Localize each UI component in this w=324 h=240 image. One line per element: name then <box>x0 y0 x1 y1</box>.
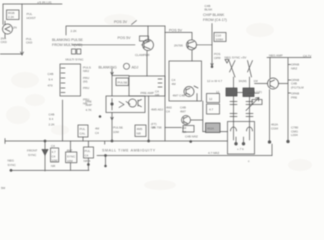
svg-text:NR 4: NR 4 <box>84 159 91 163</box>
svg-text:C4: C4 <box>95 131 99 135</box>
potentiometer VR1 <box>124 63 130 69</box>
svg-text:4.7: 4.7 <box>209 108 214 112</box>
node C4B NRZ label <box>185 135 198 139</box>
node FRONT SYNC label <box>27 149 37 158</box>
resistor R12 <box>66 152 77 163</box>
wire U4 down link <box>203 101 228 132</box>
transistor Q4 <box>129 99 137 107</box>
node U1 left labels <box>48 72 54 88</box>
wire Q3 out <box>197 44 213 46</box>
diode D3 <box>44 141 46 171</box>
wire chip blank vertical <box>211 24 213 67</box>
svg-text:4M5 ADJ: 4M5 ADJ <box>151 108 164 112</box>
potentiometer VR2 arrow <box>246 98 259 111</box>
svg-text:2N: 2N <box>13 26 17 30</box>
svg-text:10M: 10M <box>67 159 73 163</box>
resistor R7 <box>135 125 146 137</box>
IC U3 oneshot <box>106 96 145 113</box>
delay line DL1 input slants <box>229 61 253 78</box>
wire Q2 emitter lower <box>148 96 150 141</box>
svg-text:2.2K: 2.2K <box>49 122 55 126</box>
svg-text:C4: C4 <box>85 154 89 158</box>
transistor Q5 <box>184 87 194 97</box>
resistor R8 <box>183 126 194 133</box>
svg-text:C4: C4 <box>166 109 170 113</box>
node column labels <box>207 79 258 94</box>
node tick <box>132 21 137 25</box>
resistor R9 <box>78 125 88 137</box>
node NEG SYNC out label <box>8 159 17 168</box>
resistor R10 <box>51 148 59 162</box>
svg-text:100M: 100M <box>216 38 224 42</box>
svg-text:C4B: C4B <box>48 72 54 76</box>
svg-text:PULSE: PULSE <box>118 80 128 84</box>
svg-text:12: 12 <box>209 97 213 101</box>
svg-text:C4B NRZ: C4B NRZ <box>185 135 198 139</box>
wire main bottom bus A <box>5 141 228 144</box>
node NEG SYNC label <box>225 56 247 60</box>
svg-text:SYNC: SYNC <box>28 153 37 157</box>
wire U3 down <box>111 113 114 142</box>
svg-text:POS 3V: POS 3V <box>114 20 128 24</box>
node junction arrow <box>21 52 24 55</box>
capacitor C4 <box>243 88 254 97</box>
node 4M2 label <box>166 106 172 114</box>
svg-text:NEG: NEG <box>8 159 15 163</box>
svg-text:+5 PLUS: +5 PLUS <box>37 1 52 5</box>
svg-text:3A(M): 3A(M) <box>239 79 247 83</box>
svg-text:9.4: 9.4 <box>49 78 54 82</box>
svg-text:5M: 5M <box>1 186 6 190</box>
resistor R1 <box>7 10 20 20</box>
svg-text:(M): (M) <box>83 80 88 84</box>
svg-text:L004: L004 <box>291 133 298 137</box>
wire column B <box>249 77 251 140</box>
svg-text:C4.7V: C4.7V <box>303 54 311 58</box>
capacitor marks on columns <box>230 102 253 117</box>
svg-text:+.7 b: +.7 b <box>237 147 244 151</box>
wire adj vertical <box>111 69 114 97</box>
svg-text:(F): (F) <box>258 90 262 94</box>
svg-text:2.2K: 2.2K <box>8 15 14 19</box>
delay line DL1 box <box>228 122 255 155</box>
svg-text:BLANKING: BLANKING <box>99 65 117 69</box>
svg-text:4.7K: 4.7K <box>86 108 92 112</box>
svg-text:C4: C4 <box>51 144 55 148</box>
svg-text:470: 470 <box>48 84 53 88</box>
svg-text:C4B: C4B <box>49 113 55 117</box>
transistor Q2 <box>143 40 154 51</box>
diode D1 <box>111 99 113 111</box>
svg-text:PUL: PUL <box>85 149 91 153</box>
svg-text:(FC/7)LM: (FC/7)LM <box>291 86 304 90</box>
node right pin labels <box>291 63 304 100</box>
node 2.2K label <box>49 113 55 127</box>
svg-text:PRU: PRU <box>83 86 89 90</box>
diode D2 <box>225 60 229 64</box>
IC U2 <box>129 76 165 96</box>
svg-text:BLNK: BLNK <box>205 8 213 12</box>
wire bus B2 <box>97 155 272 157</box>
svg-text:CKD: CKD <box>1 40 8 44</box>
IC U1 multivibrator <box>60 64 81 96</box>
capacitor C2 <box>214 33 226 42</box>
wire Q3 emitter <box>191 50 193 61</box>
node U1 right pin labels <box>83 66 91 106</box>
svg-text:4M: 4M <box>95 127 100 131</box>
resistor R11 <box>84 147 94 158</box>
svg-text:CGM: CGM <box>271 126 279 130</box>
svg-text:12 in W 4.7: 12 in W 4.7 <box>207 79 223 83</box>
svg-text:FROM (C4-17): FROM (C4-17) <box>203 18 227 22</box>
wire right bus <box>288 58 291 142</box>
svg-text:NEG AMP: NEG AMP <box>269 54 283 58</box>
svg-text:PRE: PRE <box>291 95 297 99</box>
svg-text:NRZ: NRZ <box>291 66 297 70</box>
svg-text:NEG SYNC +5V: NEG SYNC +5V <box>225 56 247 60</box>
resistor R4 <box>252 100 262 105</box>
svg-text:4M5: 4M5 <box>137 127 143 131</box>
wire +5V top rail <box>3 3 62 5</box>
svg-text:2N706: 2N706 <box>174 44 183 48</box>
svg-text:BLANKING PULSE: BLANKING PULSE <box>52 38 84 42</box>
svg-text:2N 706: 2N 706 <box>152 126 162 130</box>
svg-text:POS 5V: POS 5V <box>169 29 183 33</box>
wire base link <box>248 84 268 94</box>
wire V1 <box>2 4 4 25</box>
svg-text:AMP: AMP <box>86 103 93 107</box>
wire Q6 emitter <box>269 90 271 143</box>
svg-text:4M: 4M <box>172 82 177 86</box>
node J1 riser <box>271 144 273 156</box>
svg-text:NR2: NR2 <box>83 69 89 73</box>
IC U4 <box>169 61 202 101</box>
node +5 PLUS label <box>37 1 52 5</box>
wire Q2 emitter <box>146 50 148 76</box>
node U3 left labels <box>86 100 93 113</box>
svg-text:CLAMPER: CLAMPER <box>135 53 150 57</box>
svg-text:CHIP BLANK: CHIP BLANK <box>203 13 225 17</box>
svg-text:4M7 C4B: 4M7 C4B <box>173 94 186 98</box>
node POS 3V label <box>114 20 128 24</box>
svg-text:MULTI SYNC: MULTI SYNC <box>66 58 85 62</box>
node PUL CKD label <box>26 37 33 45</box>
svg-text:4.7 NRZ: 4.7 NRZ <box>208 151 219 155</box>
wire W2 <box>0 53 22 55</box>
svg-text:CAL: CAL <box>80 132 86 136</box>
svg-text:PUL: PUL <box>80 127 86 131</box>
wire R down <box>62 100 64 141</box>
capacitor C5 <box>206 123 221 133</box>
capacitor C3 <box>226 88 237 96</box>
node corner note <box>1 186 6 190</box>
wire V2 <box>21 4 23 55</box>
svg-text:SMALL TIME AMBIGUITY: SMALL TIME AMBIGUITY <box>102 148 156 152</box>
svg-text:10M: 10M <box>52 158 58 162</box>
node PULL HOIST label <box>27 12 36 20</box>
svg-text:OPR: OPR <box>214 56 221 60</box>
wire collector link <box>165 32 192 40</box>
svg-text:9.4: 9.4 <box>49 117 54 121</box>
node POS 5V label <box>118 36 132 40</box>
resistor R3 <box>116 78 129 86</box>
transistor Q6 <box>268 78 279 89</box>
node BLANKING ADJ label <box>99 65 139 69</box>
svg-text:1M: 1M <box>254 79 259 83</box>
wire link <box>112 75 129 77</box>
svg-text:ADJ: ADJ <box>132 65 139 69</box>
svg-text:10M: 10M <box>113 130 119 134</box>
wire column A <box>233 77 235 140</box>
svg-text:4M7: 4M7 <box>67 148 73 152</box>
transistor Q3 <box>187 40 197 50</box>
node PULSE 10M label <box>113 126 123 134</box>
transistor Q7 <box>182 116 191 125</box>
wire output bus B1 <box>10 169 89 171</box>
svg-text:POS 5V: POS 5V <box>118 36 132 40</box>
wire long vertical V3 <box>164 26 166 141</box>
svg-text:SYNC: SYNC <box>8 163 17 167</box>
node 2N706 label <box>152 126 162 130</box>
wire Q6 collector <box>269 58 271 79</box>
wire terminal <box>268 141 271 144</box>
resistor R6 <box>207 104 220 114</box>
svg-text:SYNC: SYNC <box>67 154 76 158</box>
resistor R5 <box>207 94 220 103</box>
svg-text:PRE AMP: PRE AMP <box>141 91 154 95</box>
svg-text:2.2K: 2.2K <box>71 29 77 33</box>
svg-text:FRONT: FRONT <box>27 149 37 153</box>
resistor R2 <box>140 36 149 41</box>
wire blanking input <box>72 44 135 46</box>
node BLANKING PULSE label <box>52 38 84 47</box>
wire NEG rail right <box>267 57 311 59</box>
svg-text:CKD: CKD <box>26 41 33 45</box>
wire bus top middle <box>66 26 165 35</box>
svg-text:4M7: 4M7 <box>180 109 186 113</box>
transistor Q1 <box>3 24 13 34</box>
svg-text:462A: 462A <box>207 127 214 131</box>
wire link to Q7 <box>165 127 182 129</box>
capacitor C1 marks <box>72 49 76 54</box>
node CHIP BLANK label <box>205 4 213 12</box>
node SMALL TIME AMBIGUITY label <box>102 148 156 152</box>
node POS OPR label <box>214 52 221 60</box>
svg-text:HOIST: HOIST <box>27 16 36 20</box>
